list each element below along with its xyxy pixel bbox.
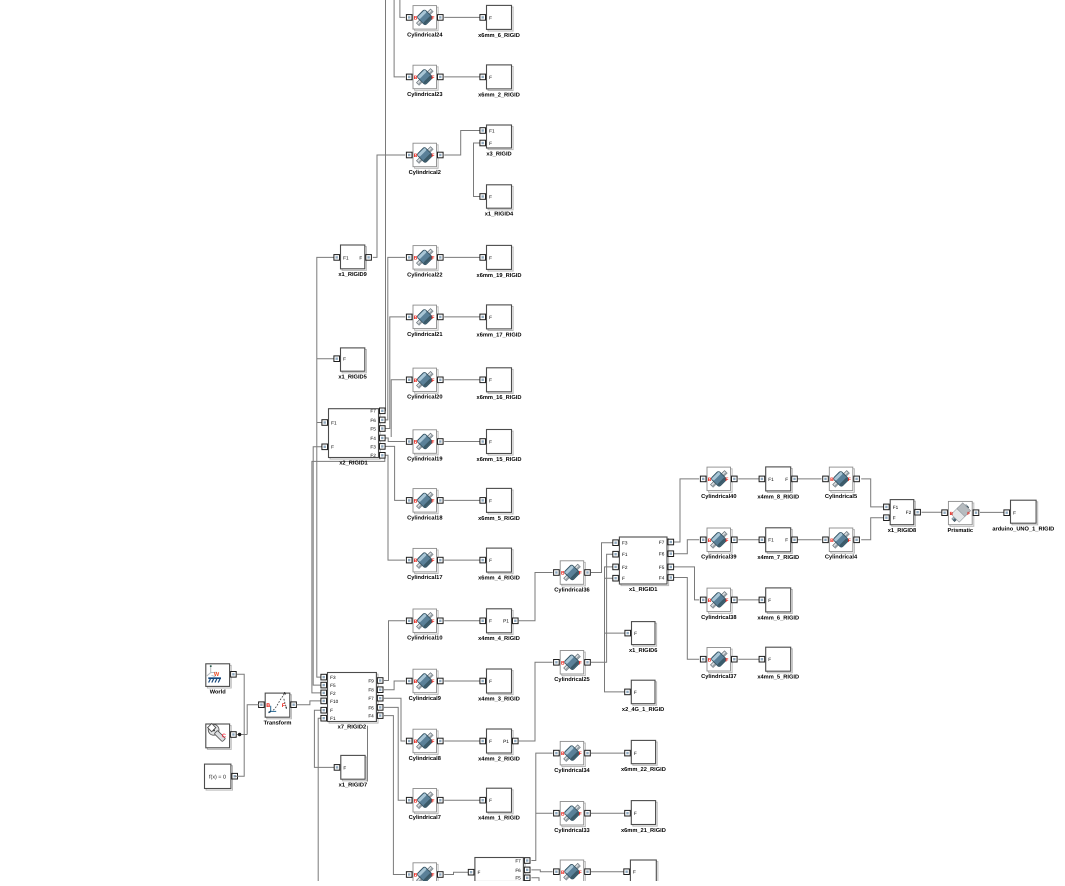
svg-text:B: B <box>708 538 712 544</box>
svg-text:F: F <box>489 619 492 624</box>
svg-text:x4mm_7_RIGID: x4mm_7_RIGID <box>757 555 799 561</box>
svg-text:Cylindrical37: Cylindrical37 <box>701 673 736 680</box>
svg-text:F: F <box>431 256 434 262</box>
svg-text:F: F <box>282 703 285 709</box>
wire x2_RIGID1.F3 to Cylindrical18.B <box>384 446 405 500</box>
solver configuration block f(x)=0 <box>205 764 238 790</box>
svg-text:Transform: Transform <box>264 719 292 726</box>
wire x4mm_8_RIGID.F to Cylindrical5.B <box>797 478 822 480</box>
rigid body x6mm_15_RIGID <box>477 430 522 463</box>
rigid body x6mm_2_RIGID <box>478 65 520 98</box>
wire stub below x7_RIGID2 <box>367 726 369 782</box>
wire Prismatic.F to arduino.F <box>980 511 1005 513</box>
svg-text:Prismatic: Prismatic <box>947 527 973 534</box>
svg-text:F: F <box>431 679 434 685</box>
wire Cylindrical4.F to x1_RIGID8.F <box>861 518 884 540</box>
svg-text:B: B <box>414 75 418 81</box>
wire transform F to x7_RIGID2 F10 <box>296 701 321 705</box>
svg-text:F: F <box>489 75 492 80</box>
cylindrical joint Cylindrical39 <box>700 528 737 561</box>
wire bottom body F6 to Cylindrical32.B <box>531 870 552 872</box>
svg-text:Cylindrical17: Cylindrical17 <box>407 574 442 581</box>
wire x7_RIGID2.F1 down <box>318 718 322 881</box>
svg-text:F: F <box>431 378 434 384</box>
svg-text:F: F <box>431 16 434 22</box>
svg-text:F: F <box>431 153 434 159</box>
svg-text:F: F <box>725 477 728 483</box>
rigid body x4mm_7_RIGID <box>757 528 799 561</box>
rigid body x1_RIGID5 <box>334 348 367 381</box>
svg-text:P1: P1 <box>503 619 509 624</box>
svg-text:B: B <box>414 679 418 685</box>
wire mechanism C to net <box>236 734 247 736</box>
svg-text:B: B <box>266 703 270 709</box>
wire branch to x1_RIGID5.F <box>317 358 334 360</box>
wire Cylindrical34.F to x6mm_22_RIGID.F <box>591 752 625 754</box>
rigid body x3_RIGID <box>480 125 513 157</box>
cylindrical joint Cylindrical7 <box>406 789 443 822</box>
svg-text:B: B <box>708 477 712 483</box>
svg-text:Cylindrical33: Cylindrical33 <box>554 827 589 834</box>
wire net to transform B <box>247 705 259 735</box>
svg-text:x1_RIGID7: x1_RIGID7 <box>339 783 367 789</box>
rigid body x1_RIGID9 <box>334 245 372 278</box>
svg-text:Cylindrical21: Cylindrical21 <box>407 331 442 338</box>
wire Cylindrical2.B from x1_RIGID9.F <box>373 155 406 257</box>
wire top feed to Cylindrical24.B <box>400 0 405 17</box>
wire x2_RIGID1.F4 to Cylindrical19.B <box>384 438 405 442</box>
svg-text:F1: F1 <box>330 716 336 721</box>
cylindrical joint Cylindrical33 <box>554 802 591 835</box>
wire net x1_RIGID9.F1 chain <box>317 257 334 677</box>
wire x1_RIGID8.F2 to Prismatic.B <box>922 511 943 513</box>
svg-text:Cylindrical25: Cylindrical25 <box>554 676 589 683</box>
svg-text:F4: F4 <box>659 575 665 580</box>
wire x4mm_7_RIGID.F to Cylindrical4.B <box>797 539 822 541</box>
svg-text:arduino_UNO_1_RIGID: arduino_UNO_1_RIGID <box>992 526 1054 533</box>
svg-text:F: F <box>489 255 492 260</box>
svg-text:F: F <box>634 811 637 816</box>
svg-text:Cylindrical5: Cylindrical5 <box>825 493 857 500</box>
svg-text:F1: F1 <box>331 420 337 425</box>
svg-text:x6mm_22_RIGID: x6mm_22_RIGID <box>621 767 666 773</box>
wire x1_RIGID1.F2 to x1_RIGID6.F <box>605 567 626 633</box>
wire Cylindrical2.F to x2_RIGID.F1 <box>444 131 481 156</box>
svg-text:B: B <box>414 440 418 446</box>
svg-text:B: B <box>561 751 565 757</box>
wire Cylindrical19.F to x6mm_15_RIGID.F <box>444 441 481 443</box>
wire net x2_RIGID1.F to x7_RIGID2.F5 <box>313 447 322 685</box>
svg-text:F: F <box>579 811 582 817</box>
svg-text:F: F <box>330 708 333 713</box>
svg-text:B: B <box>414 558 418 564</box>
svg-text:F: F <box>725 598 728 604</box>
svg-text:x3_RIGID: x3_RIGID <box>486 151 511 157</box>
svg-text:F1: F1 <box>622 552 628 557</box>
svg-text:B: B <box>414 873 418 879</box>
wire x1_RIGID1.F7 to Cylindrical40.B <box>673 479 699 542</box>
svg-text:F: F <box>634 631 637 636</box>
svg-text:B: B <box>414 739 418 745</box>
cylindrical joint Cylindrical24 <box>406 6 443 39</box>
svg-text:F5: F5 <box>330 683 336 688</box>
wire Cylindrical34.B channel down <box>531 753 552 860</box>
cylindrical joint Cylindrical36 <box>554 561 591 594</box>
wire x2_RIGID1.F2 to Cylindrical17.B <box>384 455 405 560</box>
svg-text:x6mm_6_RIGID: x6mm_6_RIGID <box>478 33 520 39</box>
rigid body x6mm_6_RIGID <box>478 5 520 38</box>
svg-text:F: F <box>848 538 851 544</box>
wire Cylindrical32.F to x6mm_20_RIGID.F <box>591 871 624 873</box>
svg-text:Cylindrical10: Cylindrical10 <box>407 635 442 642</box>
wire Cylindrical39.F to x4mm_7_RIGID.F1 <box>738 539 760 541</box>
svg-text:F2: F2 <box>906 510 912 515</box>
svg-text:x6mm_5_RIGID: x6mm_5_RIGID <box>478 516 520 522</box>
svg-text:F1: F1 <box>768 477 774 482</box>
svg-text:F: F <box>431 739 434 745</box>
cylindrical joint Cylindrical10 <box>406 609 443 642</box>
rigid body x4mm_6_RIGID <box>757 588 799 621</box>
cylindrical joint Cylindrical5 <box>823 467 860 500</box>
svg-text:F7: F7 <box>370 409 376 414</box>
svg-text:Cylindrical20: Cylindrical20 <box>407 394 442 401</box>
svg-text:B: B <box>414 499 418 505</box>
svg-text:F6: F6 <box>370 418 376 423</box>
svg-text:F: F <box>633 870 636 875</box>
cylindrical joint Cylindrical40 <box>700 467 737 500</box>
rigid body arduino_UNO_1_RIGID <box>992 500 1054 532</box>
svg-text:x6mm_17_RIGID: x6mm_17_RIGID <box>477 332 522 338</box>
world frame block World <box>206 664 236 696</box>
svg-text:Cylindrical39: Cylindrical39 <box>701 554 736 561</box>
rigid body x1_RIGID4 <box>480 185 514 218</box>
svg-text:Cylindrical22: Cylindrical22 <box>407 271 442 278</box>
svg-text:B: B <box>414 256 418 262</box>
svg-text:B: B <box>561 660 565 666</box>
svg-text:F3: F3 <box>370 444 376 449</box>
wire Cylindrical23.F to x6mm_2_RIGID.F <box>444 76 481 78</box>
wire Cylindrical36.F to x1_RIGID1.F3 <box>591 543 613 573</box>
wire Cylindrical37.F to x4mm_5_RIGID.F <box>738 658 760 660</box>
wire Cylindrical24.F to x6mm_6_RIGID.F <box>444 16 481 18</box>
mechanism configuration block <box>206 723 236 749</box>
svg-text:W: W <box>214 672 220 678</box>
svg-text:x6mm_21_RIGID: x6mm_21_RIGID <box>621 828 666 834</box>
svg-text:x4mm_4_RIGID: x4mm_4_RIGID <box>478 636 520 642</box>
cylindrical joint Cylindrical37 <box>700 648 737 681</box>
rigid body x4mm_2_RIGID <box>478 729 520 762</box>
svg-text:F3: F3 <box>622 541 628 546</box>
cylindrical joint Cylindrical19 <box>406 430 443 463</box>
svg-text:B: B <box>414 798 418 804</box>
wire Cylindrical10.F to x4mm_4_RIGID.F <box>444 620 481 622</box>
svg-text:F: F <box>489 141 492 146</box>
wire Cylindrical33.F to x6mm_21_RIGID.F <box>591 812 625 814</box>
cylindrical joint Cylindrical9 <box>406 669 443 702</box>
svg-text:F: F <box>579 751 582 757</box>
svg-text:F5: F5 <box>515 876 521 881</box>
svg-text:F: F <box>768 598 771 603</box>
svg-text:x1_RIGID4: x1_RIGID4 <box>485 212 514 218</box>
wire world W to config net vertical <box>235 674 245 776</box>
svg-text:B: B <box>708 598 712 604</box>
svg-text:Cylindrical9: Cylindrical9 <box>409 695 441 702</box>
svg-text:F1: F1 <box>343 255 349 260</box>
svg-text:f(x) = 0: f(x) = 0 <box>209 774 226 780</box>
svg-text:F: F <box>331 445 334 450</box>
svg-text:F10: F10 <box>330 699 338 704</box>
svg-text:B: B <box>561 811 565 817</box>
rigid body x2_4G_1_RIGID <box>622 680 664 713</box>
rigid body x4mm_1_RIGID <box>478 788 520 821</box>
svg-text:x1_RIGID5: x1_RIGID5 <box>338 375 366 381</box>
wire x2_RIGID1.F6 to Cylindrical22.B <box>384 257 405 420</box>
svg-text:F3: F3 <box>330 675 336 680</box>
cylindrical joint Cylindrical6 <box>406 863 443 886</box>
wire x1_RIGID1.F5 to Cylindrical38.B <box>673 567 699 600</box>
svg-text:Cylindrical24: Cylindrical24 <box>407 31 443 38</box>
svg-text:x4mm_6_RIGID: x4mm_6_RIGID <box>757 615 799 621</box>
wire x1_RIGID1.F4 to Cylindrical37.B <box>673 578 699 660</box>
wire branch to x2_RIGID1.F1 <box>317 422 322 424</box>
svg-text:F: F <box>1013 511 1016 516</box>
svg-text:x1_RIGID9: x1_RIGID9 <box>338 272 366 278</box>
rigid body x4mm_5_RIGID <box>757 647 799 680</box>
svg-text:x4mm_3_RIGID: x4mm_3_RIGID <box>478 696 520 702</box>
rigid body x6mm_16_RIGID <box>477 368 522 401</box>
wire Cylindrical22.F to x6mm_19_RIGID.F <box>444 256 481 258</box>
rigid body x6mm_21_RIGID <box>621 801 666 834</box>
svg-text:F: F <box>848 477 851 483</box>
svg-text:F: F <box>967 511 970 516</box>
rigid body x1_RIGID6 <box>625 622 658 654</box>
svg-text:B: B <box>414 153 418 159</box>
wire top feed to Cylindrical23.B <box>394 0 405 77</box>
wire Cylindrical8.F to x4mm_2_RIGID.F <box>444 740 481 742</box>
svg-text:F4: F4 <box>370 436 376 441</box>
wire x7_RIGID2.F7 to Cylindrical8.B <box>384 698 405 741</box>
wire x7_RIGID2.F4 to Cylindrical6.B <box>384 716 405 875</box>
svg-text:F1: F1 <box>489 128 495 133</box>
rigid body x6mm_22_RIGID <box>621 740 666 773</box>
svg-text:Cylindrical8: Cylindrical8 <box>409 755 441 762</box>
svg-text:C: C <box>222 733 226 739</box>
svg-text:Cylindrical23: Cylindrical23 <box>407 91 442 98</box>
svg-text:F7: F7 <box>515 858 521 863</box>
svg-text:F7: F7 <box>368 696 374 701</box>
wire Cylindrical21.F to x6mm_17_RIGID.F <box>444 316 481 318</box>
svg-text:F2: F2 <box>330 691 336 696</box>
svg-text:F: F <box>489 558 492 563</box>
wire Cylindrical18.F to x6mm_5_RIGID.F <box>444 499 481 501</box>
rigid body x6mm_5_RIGID <box>478 488 520 521</box>
wire Cylindrical25.F to x1_RIGID1.F1 <box>591 554 613 662</box>
svg-text:F: F <box>431 798 434 804</box>
svg-text:F: F <box>489 315 492 320</box>
svg-text:F: F <box>489 498 492 503</box>
rigid body x6mm_19_RIGID <box>477 245 522 278</box>
svg-text:x4mm_2_RIGID: x4mm_2_RIGID <box>478 756 520 762</box>
svg-text:F: F <box>893 516 896 521</box>
rigid body x6mm_4_RIGID <box>478 548 520 581</box>
svg-text:x6mm_16_RIGID: x6mm_16_RIGID <box>477 395 522 401</box>
cylindrical joint Cylindrical21 <box>406 305 443 338</box>
svg-text:F4: F4 <box>368 714 374 719</box>
svg-text:B: B <box>414 619 418 625</box>
cylindrical joint Cylindrical17 <box>406 548 443 581</box>
rigid body x1_RIGID1 <box>613 537 674 593</box>
rigid body x6mm_17_RIGID <box>477 305 522 338</box>
svg-text:F: F <box>431 873 434 879</box>
svg-text:x4mm_8_RIGID: x4mm_8_RIGID <box>757 494 799 500</box>
cylindrical joint Cylindrical2 <box>406 143 443 176</box>
cylindrical joint Cylindrical23 <box>406 65 443 98</box>
rigid body x1_RIGID7 <box>334 755 367 788</box>
svg-text:B: B <box>830 477 834 483</box>
svg-text:Cylindrical19: Cylindrical19 <box>407 455 442 462</box>
svg-text:F: F <box>489 194 492 199</box>
svg-text:F: F <box>634 751 637 756</box>
svg-text:Cylindrical34: Cylindrical34 <box>554 767 590 774</box>
svg-text:F: F <box>634 690 637 695</box>
wire Cylindrical38.F to x4mm_6_RIGID.F <box>738 599 760 601</box>
wire Cylindrical20.B channel <box>391 380 405 437</box>
cylindrical joint Cylindrical38 <box>700 588 737 621</box>
wire Cylindrical17.F to x6mm_4_RIGID.F <box>444 559 481 561</box>
svg-text:F1: F1 <box>893 505 899 510</box>
prismatic joint Prismatic <box>942 501 979 534</box>
svg-text:x7_RIGID2: x7_RIGID2 <box>338 725 366 731</box>
svg-text:F6: F6 <box>659 552 665 557</box>
svg-text:F1: F1 <box>768 538 774 543</box>
svg-text:F: F <box>579 660 582 666</box>
svg-text:F5: F5 <box>659 565 665 570</box>
svg-text:F: F <box>622 576 625 581</box>
svg-text:F: F <box>489 15 492 20</box>
wire Cylindrical9.F to x4mm_3_RIGID.F <box>444 680 481 682</box>
wire top feed to x2_RIGID1.F7 <box>384 0 386 411</box>
wire x4mm_2.P1 to Cylindrical25.B <box>519 662 553 741</box>
svg-text:B: B <box>561 571 565 577</box>
svg-text:F: F <box>343 357 346 362</box>
wire net under-label to x7_RIGID2.F2 <box>312 455 385 693</box>
svg-text:F7: F7 <box>659 540 665 545</box>
svg-text:F: F <box>431 499 434 505</box>
svg-text:x1_RIGID6: x1_RIGID6 <box>629 648 657 654</box>
svg-text:P1: P1 <box>503 739 509 744</box>
svg-text:F: F <box>489 798 492 803</box>
svg-text:F: F <box>359 255 362 260</box>
cylindrical joint Cylindrical20 <box>406 368 443 401</box>
wire bottom body F5 down <box>531 878 539 881</box>
svg-text:F: F <box>489 679 492 684</box>
svg-text:B: B <box>414 315 418 321</box>
svg-text:F: F <box>343 765 346 770</box>
svg-text:F5: F5 <box>370 426 376 431</box>
svg-text:F: F <box>431 558 434 564</box>
wire x1_RIGID1.F6 to Cylindrical39.B <box>673 540 699 554</box>
svg-text:F: F <box>431 619 434 625</box>
svg-text:F: F <box>489 739 492 744</box>
svg-text:x6mm_4_RIGID: x6mm_4_RIGID <box>478 576 520 582</box>
svg-text:B: B <box>708 657 712 663</box>
svg-text:B: B <box>414 16 418 22</box>
svg-text:x2_4G_1_RIGID: x2_4G_1_RIGID <box>622 707 664 713</box>
svg-text:F: F <box>579 870 582 876</box>
svg-text:F: F <box>579 571 582 577</box>
cylindrical joint Cylindrical18 <box>406 489 443 522</box>
svg-text:F6: F6 <box>515 868 521 873</box>
rigid body x4mm_3_RIGID <box>478 669 520 702</box>
cylindrical joint Cylindrical8 <box>406 729 443 762</box>
svg-text:x6mm_15_RIGID: x6mm_15_RIGID <box>477 457 522 463</box>
rigid body x4mm_4_RIGID <box>478 609 520 642</box>
rigid body x2_RIGID1 <box>322 408 385 467</box>
svg-text:x2_RIGID1: x2_RIGID1 <box>339 461 367 467</box>
wire Cylindrical6.F to body F <box>444 872 468 874</box>
svg-text:F: F <box>431 315 434 321</box>
svg-text:F8: F8 <box>368 688 374 693</box>
svg-text:F: F <box>785 538 788 543</box>
wire x2_RIGID.F to x1_RIGID4.F <box>474 143 482 197</box>
svg-text:Cylindrical36: Cylindrical36 <box>554 586 589 593</box>
wire x4mm_4.P1 to Cylindrical36.B <box>519 573 553 621</box>
svg-text:x1_RIGID1: x1_RIGID1 <box>629 587 657 593</box>
svg-text:x1_RIGID8: x1_RIGID8 <box>888 528 916 534</box>
svg-text:Cylindrical38: Cylindrical38 <box>701 614 736 621</box>
rigid body x6_RIGID_bottom <box>468 858 530 884</box>
svg-text:World: World <box>210 688 227 695</box>
wire Cylindrical7.F to x4mm_1_RIGID.F <box>444 799 481 801</box>
svg-text:F: F <box>431 440 434 446</box>
cylindrical joint Cylindrical4 <box>823 528 860 561</box>
wire x7_RIGID2.F9 to Cylindrical10.B <box>384 621 405 681</box>
cylindrical joint Cylindrical34 <box>554 741 591 774</box>
wire x1_RIGID1.F to x2_4G_1_RIGID.F <box>605 578 626 692</box>
svg-text:F: F <box>785 477 788 482</box>
cylindrical joint Cylindrical22 <box>406 246 443 279</box>
rigid body x7_RIGID2 <box>321 673 383 731</box>
svg-text:F: F <box>489 378 492 383</box>
svg-text:F2: F2 <box>370 453 376 458</box>
wire branch to Cylindrical33.B <box>536 812 553 814</box>
svg-text:F: F <box>489 439 492 444</box>
cylindrical joint Cylindrical25 <box>554 651 591 684</box>
svg-text:F: F <box>725 657 728 663</box>
svg-text:Cylindrical2: Cylindrical2 <box>409 169 441 176</box>
svg-text:F: F <box>478 870 481 875</box>
svg-text:F9: F9 <box>368 678 374 683</box>
cylindrical joint Cylindrical32 <box>554 860 591 885</box>
junction node world net <box>238 733 241 736</box>
svg-text:F: F <box>725 538 728 544</box>
svg-text:x6mm_2_RIGID: x6mm_2_RIGID <box>478 92 520 98</box>
rigid transform block Transform <box>259 692 297 726</box>
wire Cylindrical40.F to x4mm_8_RIGID.F1 <box>738 478 760 480</box>
svg-text:B: B <box>561 870 565 876</box>
svg-text:x4mm_1_RIGID: x4mm_1_RIGID <box>478 816 520 822</box>
svg-text:Cylindrical7: Cylindrical7 <box>409 814 441 821</box>
svg-text:x6mm_19_RIGID: x6mm_19_RIGID <box>477 273 522 279</box>
svg-text:F: F <box>431 75 434 81</box>
svg-text:F6: F6 <box>368 705 374 710</box>
svg-text:F2: F2 <box>622 565 628 570</box>
svg-text:Cylindrical18: Cylindrical18 <box>407 514 442 521</box>
svg-text:B: B <box>830 538 834 544</box>
svg-text:B: B <box>414 378 418 384</box>
wire x2_RIGID1.F5 to Cylindrical21.B <box>384 317 405 429</box>
wire x7_RIGID2.F8 to Cylindrical9.B <box>384 681 405 690</box>
